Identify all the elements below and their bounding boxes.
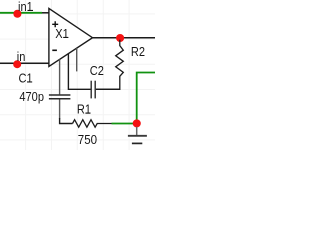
ground stub	[136, 127, 138, 135]
wire ground riser and top feed (green)	[137, 73, 155, 124]
wire R1 to ground junction (green)	[112, 123, 137, 125]
node ground junction dot	[133, 119, 141, 127]
wire op-amp output	[93, 37, 156, 39]
capacitor C1 plates	[49, 95, 71, 99]
wire C1 bottom to R1	[60, 118, 73, 124]
wire op-amp pin to C2	[68, 54, 90, 90]
svg-text:in1: in1	[18, 0, 33, 14]
svg-text:R1: R1	[77, 102, 91, 117]
op-amp minus marker	[52, 49, 57, 51]
svg-text:C2: C2	[90, 63, 104, 78]
svg-text:470p: 470p	[19, 89, 44, 104]
node in junction dot	[13, 60, 21, 68]
op-amp unconnected pin stub	[76, 48, 78, 71]
wire op-amp pin to C1 (gray upper lead)	[59, 59, 61, 94]
node output junction dot	[116, 34, 124, 42]
svg-text:R2: R2	[131, 44, 145, 59]
wire op-amp non-inverting input pin stub	[42, 12, 49, 14]
node in1 junction dot	[13, 10, 21, 18]
ground bar 1	[128, 135, 147, 137]
wire net in (black)	[0, 62, 49, 64]
svg-text:750: 750	[78, 132, 97, 147]
svg-text:C1: C1	[19, 71, 33, 86]
capacitor C2 plates	[91, 81, 95, 99]
op-amp plus marker	[52, 21, 58, 27]
op-amp X1 triangle body	[49, 8, 93, 66]
wire C2 right lead	[96, 88, 120, 90]
resistor R1 zigzag	[73, 120, 112, 128]
svg-text:in: in	[17, 49, 26, 64]
ground bar 2	[132, 142, 142, 144]
wire net in1 (green)	[0, 12, 42, 14]
resistor R2 zigzag	[96, 40, 123, 90]
svg-text:X1: X1	[55, 26, 69, 41]
wire C1 lower gray lead	[59, 99, 61, 118]
